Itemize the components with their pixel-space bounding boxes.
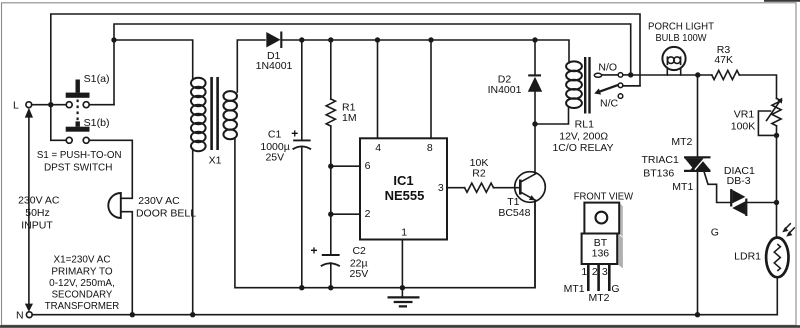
wire top rail from L [51, 14, 640, 105]
porch light bulb [648, 20, 715, 75]
junction dot primary-N [190, 312, 195, 317]
junction dot MT1-N [695, 312, 700, 317]
svg-text:MT2: MT2 [589, 292, 610, 304]
junction dot at L [48, 102, 53, 107]
transistor T1 [498, 172, 545, 220]
svg-text:R2: R2 [472, 168, 486, 180]
junction dot bell-N [130, 312, 135, 317]
junction dots 0V rail [299, 285, 304, 290]
wire primary bottom to N [192, 149, 194, 315]
wire node to LDR [776, 203, 778, 239]
svg-text:2: 2 [592, 266, 598, 278]
svg-text:G: G [711, 227, 719, 239]
ground [388, 288, 420, 307]
wire S1(b) to door bell [89, 140, 132, 314]
svg-text:3: 3 [602, 266, 608, 278]
svg-text:RL1: RL1 [575, 118, 594, 130]
svg-text:230V AC: 230V AC [18, 195, 60, 207]
wire secondary bottom to 0V rail [235, 139, 535, 288]
svg-text:12V, 200Ω: 12V, 200Ω [559, 131, 608, 143]
triac TRIAC1 [642, 136, 711, 193]
svg-text:IN4001: IN4001 [488, 84, 522, 96]
svg-text:T1: T1 [507, 196, 519, 208]
svg-text:1: 1 [401, 227, 407, 239]
wire L row [32, 104, 66, 106]
svg-text:MT2: MT2 [671, 136, 692, 148]
wire pin6 [331, 165, 360, 167]
wire S1(a) to riser [89, 104, 114, 106]
svg-text:MT1: MT1 [564, 283, 585, 295]
svg-text:25V: 25V [265, 151, 284, 163]
svg-text:1N4001: 1N4001 [256, 60, 293, 72]
svg-text:FRONT VIEW: FRONT VIEW [574, 190, 633, 202]
junction dot bulb/R3/MT2 [695, 72, 700, 77]
diode D1 [256, 32, 293, 73]
svg-text:SECONDARY: SECONDARY [52, 289, 113, 301]
LDR1 [734, 223, 795, 277]
node L [13, 100, 32, 112]
pin 8 wire [430, 40, 432, 138]
triac TRIAC1 MT2 wire [697, 75, 699, 156]
door bell [108, 193, 196, 220]
svg-text:TRIAC1: TRIAC1 [642, 154, 680, 166]
op-amp/timer IC1 NE555 box [360, 138, 447, 239]
svg-text:DB-3: DB-3 [727, 175, 751, 187]
capacitor C1 [260, 40, 311, 288]
wire bulb row [633, 74, 712, 76]
diac DIAC1 [724, 165, 755, 216]
wire R2 to base [494, 187, 520, 189]
svg-text:TRANSFORMER: TRANSFORMER [45, 300, 120, 312]
svg-text:BULB 100W: BULB 100W [656, 32, 707, 44]
contact N/C [618, 94, 623, 99]
svg-text:N: N [16, 309, 24, 321]
emitter wire [534, 201, 536, 288]
relay pole terminal [594, 73, 601, 77]
wire diac to LDR node [746, 202, 776, 204]
svg-text:INPUT: INPUT [21, 219, 53, 231]
transformer X1 secondary [223, 91, 237, 139]
resistor R1 [326, 40, 356, 126]
switch S1(a) [66, 73, 110, 108]
junction dot N/O feed [628, 72, 633, 77]
svg-text:1C/O RELAY: 1C/O RELAY [552, 142, 613, 154]
blade contact circle [618, 83, 623, 88]
wire N/O to junction [623, 74, 631, 76]
relay labels [552, 118, 613, 154]
svg-text:BC548: BC548 [498, 207, 530, 219]
svg-text:VR1: VR1 [734, 108, 755, 120]
junction dot diac node [774, 200, 779, 205]
svg-text:47K: 47K [714, 54, 733, 66]
wire pin2 [331, 213, 360, 215]
wire blade to top rail [623, 85, 640, 87]
BT136 package front view [564, 190, 634, 303]
svg-text:C1: C1 [268, 129, 282, 141]
svg-text:+: + [291, 127, 298, 141]
svg-text:25V: 25V [350, 268, 369, 280]
svg-text:C2: C2 [352, 245, 366, 257]
svg-text:8: 8 [427, 142, 433, 154]
wire VR1 to diac node [776, 126, 778, 203]
pin 4 wire [377, 40, 379, 138]
svg-text:1M: 1M [342, 112, 357, 124]
svg-text:NE555: NE555 [385, 188, 425, 203]
svg-text:230V AC: 230V AC [138, 195, 180, 207]
S1 note [37, 149, 122, 174]
wire L down to S1(b) [51, 105, 67, 141]
potentiometer VR1 [731, 98, 783, 136]
pin 1 wire [401, 240, 403, 288]
svg-text:PORCH LIGHT: PORCH LIGHT [648, 20, 715, 32]
transformer X1 core [212, 77, 218, 150]
wire pole to N/O contact [602, 74, 619, 76]
svg-text:3: 3 [438, 182, 444, 194]
relay coil bottom wire [535, 108, 569, 125]
wire riser to top second rail [114, 24, 631, 105]
svg-text:2: 2 [365, 208, 371, 220]
svg-text:S1(b): S1(b) [84, 117, 110, 129]
DC rail after D1 [282, 40, 569, 63]
relay RL1 coil [566, 61, 582, 108]
wire R3 to VR1 [739, 75, 776, 98]
svg-text:G: G [611, 283, 619, 295]
svg-text:50Hz: 50Hz [25, 207, 50, 219]
svg-text:X1=230V AC: X1=230V AC [54, 253, 111, 265]
svg-text:0-12V, 250mA,: 0-12V, 250mA, [49, 277, 115, 289]
contact N/O [618, 73, 623, 78]
junction dot VR1 bottom [774, 133, 779, 138]
triac MT1 wire [697, 172, 699, 315]
wire to transformer primary [114, 40, 193, 80]
triac gate wire [704, 171, 731, 203]
X1 note [45, 253, 120, 312]
svg-text:BT136: BT136 [643, 167, 674, 179]
junction dots DC rail [299, 37, 304, 42]
svg-text:6: 6 [365, 160, 371, 172]
svg-text:+: + [311, 244, 318, 258]
node N [16, 309, 32, 321]
svg-text:LDR1: LDR1 [734, 250, 761, 262]
svg-text:N/O: N/O [598, 62, 617, 74]
junction dot D2 top [532, 37, 537, 42]
switch S1(b) [66, 117, 110, 143]
capacitor C2 [311, 244, 369, 288]
svg-text:X1: X1 [209, 155, 222, 167]
svg-text:S1 = PUSH-TO-ON: S1 = PUSH-TO-ON [37, 149, 122, 161]
junction dots R1/C2 node [328, 164, 333, 169]
relay core [585, 57, 589, 114]
pin 3 wire [447, 187, 465, 189]
junction dot riser [111, 37, 116, 42]
svg-text:DOOR BELL: DOOR BELL [136, 208, 196, 220]
relay blade [594, 85, 618, 95]
resistor R2 [465, 157, 494, 192]
svg-text:DPST SWITCH: DPST SWITCH [44, 162, 113, 174]
svg-text:136: 136 [592, 247, 610, 259]
diode D2 [488, 40, 543, 124]
wire secondary top [237, 40, 265, 92]
svg-text:IC1: IC1 [393, 173, 413, 188]
svg-text:1: 1 [581, 266, 587, 278]
transformer X1 primary [191, 78, 206, 152]
svg-text:N/C: N/C [600, 97, 619, 109]
230V AC input annotation arrows [18, 108, 60, 312]
svg-text:100K: 100K [731, 120, 756, 132]
wire LDR to N rail [32, 277, 777, 314]
wire R1 to C2 [330, 126, 332, 255]
svg-text:4: 4 [375, 142, 381, 154]
svg-text:MT1: MT1 [672, 181, 693, 193]
collector wire [534, 124, 536, 174]
svg-text:PRIMARY TO: PRIMARY TO [51, 265, 112, 277]
resistor R3 [712, 44, 740, 80]
svg-text:S1(a): S1(a) [84, 73, 110, 85]
junction dot D2 bottom [532, 121, 537, 126]
svg-text:L: L [13, 100, 19, 112]
dotted link S1(a)-S1(b) [76, 100, 78, 121]
